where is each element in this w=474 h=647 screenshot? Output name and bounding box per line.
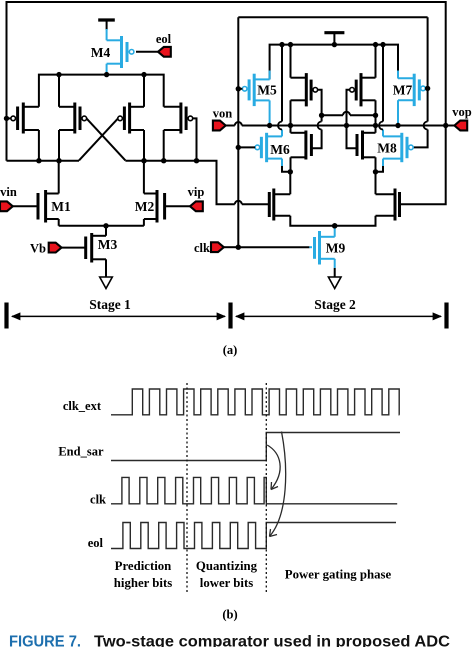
- wire: clk routing right vertical to M7/M8 gates: [427, 17, 429, 121]
- svg-text:M6: M6: [270, 142, 290, 157]
- ground symbol stage 2: [328, 277, 341, 289]
- wire: P5 source up: [290, 45, 292, 78]
- stage separator bar right: [444, 303, 448, 329]
- svg-text:eol: eol: [88, 536, 104, 550]
- wire: N1 source down to internal node: [290, 157, 292, 172]
- wire: M5 drain down to von rail: [269, 100, 271, 125]
- transistor M5 (PMOS power switch): [253, 74, 256, 106]
- wire: cross-couple net A horizontal: [322, 114, 343, 116]
- pin vop pad: [454, 121, 467, 131]
- svg-text:Two-stage comparator used in p: Two-stage comparator used in proposed AD…: [94, 634, 450, 647]
- stage separator bar middle: [228, 303, 232, 329]
- transistor P1 (stage1 outer left PMOS): [22, 103, 25, 134]
- svg-text:eol: eol: [156, 32, 172, 46]
- power VDD stage 2: [324, 31, 344, 34]
- transistor P4 (stage1 outer right PMOS): [179, 103, 182, 134]
- svg-text:vop: vop: [452, 105, 472, 119]
- pin vip pad: [190, 201, 203, 211]
- node: tail junction: [103, 223, 108, 228]
- pin clk pad: [211, 242, 224, 252]
- wire: P5 gate to cross net A: [318, 90, 322, 116]
- node: junction M4 drain on source rail: [104, 72, 109, 77]
- wire: M9 source down to ground: [334, 259, 336, 268]
- svg-text:clk: clk: [194, 241, 210, 255]
- transistor M1 (input NMOS): [44, 190, 47, 223]
- wire: M9 drain up to tail: [334, 226, 336, 237]
- transistor N2 (stage2 latch NMOS right): [361, 131, 364, 160]
- pin eol pad: [158, 47, 171, 57]
- wire: outer loop right lower segment to M12 gate: [400, 126, 446, 205]
- svg-text:FIGURE 7.: FIGURE 7.: [9, 634, 81, 647]
- wire: cross-couple diagonal P3 gate to left rail: [79, 118, 118, 160]
- node: M5 gate tap on clk: [236, 86, 241, 91]
- wire: M7 drain down to vop rail: [397, 100, 399, 125]
- svg-text:M1: M1: [51, 199, 71, 214]
- wire: M10 drain up: [289, 172, 291, 194]
- transistor M8 (PMOS power switch): [400, 133, 403, 162]
- wire: M8 drain down to internal node: [382, 159, 384, 166]
- stage separator bar left: [4, 303, 8, 329]
- wire: P4 gate to right output rail: [193, 118, 197, 160]
- svg-text:(a): (a): [223, 343, 238, 357]
- transistor M10 (stage2 input NMOS left): [272, 189, 275, 221]
- wire: M6 drain down to internal node: [281, 159, 283, 166]
- node: VDD junction on stage2 top rail: [332, 42, 337, 47]
- svg-text:Prediction: Prediction: [115, 559, 172, 573]
- svg-text:clk_ext: clk_ext: [63, 399, 102, 413]
- pin von pad: [213, 121, 226, 131]
- transistor M12 (stage2 input NMOS right): [394, 189, 397, 221]
- wire: P5 drain down through von rail to N1 drain: [290, 100, 292, 133]
- svg-text:Stage 2: Stage 2: [314, 297, 356, 312]
- wire: M2 drain up: [143, 161, 145, 194]
- wire: net A vertical down to N1 gate (hop over von rail): [321, 115, 323, 121]
- wire: M8 source up to top rail (hop over vop rail): [382, 130, 384, 137]
- svg-text:higher bits: higher bits: [114, 576, 172, 590]
- pin Vb pad: [49, 243, 62, 253]
- node: stage1 right output to stage2: [194, 158, 199, 163]
- transistor M9 (NMOS power switch tail): [238, 246, 309, 248]
- transistor M2 (input NMOS): [156, 190, 159, 223]
- svg-text:M8: M8: [377, 141, 397, 156]
- svg-text:clk: clk: [90, 493, 106, 507]
- wire: M12 source down to tail: [335, 216, 376, 226]
- wire: N2 source down to internal node: [375, 157, 377, 172]
- wire: stage1 left output rail: [7, 160, 80, 162]
- ground symbol stage 1: [100, 277, 113, 289]
- wire: P3 drain to right output rail: [143, 130, 145, 161]
- wire: N2 gate up to von rail: [347, 126, 358, 149]
- wire: P1 drain to left output rail: [38, 130, 40, 161]
- svg-text:lower bits: lower bits: [200, 576, 253, 590]
- transistor M6 (PMOS power switch): [265, 133, 268, 162]
- wire: M4 gate to eol pad: [136, 51, 158, 53]
- phase boundary dotted line 1: [186, 383, 188, 592]
- node: M6 gate tap on clk: [236, 145, 241, 150]
- transistor P5 (stage2 latch PMOS left): [305, 73, 308, 106]
- wire: M3 source to ground: [105, 259, 107, 277]
- waveform clk_ext: [111, 389, 400, 415]
- wire: N2 drain up to vop rail: [375, 126, 377, 133]
- svg-text:vin: vin: [0, 185, 17, 199]
- wire: M10 source down to tail: [290, 216, 334, 226]
- wire: P2 drain to left output rail: [58, 130, 60, 161]
- wire: outer loop top/left/right (node net1): [7, 2, 446, 161]
- transistor P2 (stage1 inner left PMOS): [73, 103, 76, 134]
- node: P1 gate tap on left wire: [4, 116, 9, 121]
- arrow: Stage 1 span: [12, 315, 225, 317]
- wire: von-vop output rail: [226, 125, 235, 127]
- node: P3 source junction: [141, 72, 146, 77]
- node: right internal node: [373, 169, 378, 174]
- svg-text:(b): (b): [222, 608, 237, 622]
- phase boundary dotted line 2: [265, 383, 267, 592]
- arrow arc End_sar to clk: [267, 445, 280, 490]
- wire: P6 source up: [375, 45, 377, 78]
- wire: stage2 inner box top (clk routing): [238, 16, 427, 18]
- svg-text:M2: M2: [135, 199, 155, 214]
- wire: stage1 right output rail: [125, 160, 196, 162]
- transistor M4 (PMOS power switch): [106, 29, 108, 40]
- wire: M12 drain up: [375, 172, 377, 194]
- pin vin pad: [0, 201, 13, 211]
- waveform End_sar: [111, 433, 400, 461]
- wire: M2 source down: [143, 219, 145, 226]
- svg-text:M5: M5: [257, 83, 277, 98]
- wire: M1 drain up: [58, 161, 60, 194]
- power VDD stage 1: [98, 18, 115, 21]
- svg-text:M3: M3: [98, 237, 118, 252]
- svg-text:Stage 1: Stage 1: [89, 297, 131, 312]
- svg-text:von: von: [213, 107, 233, 121]
- node: M7 gate tap on clk routing: [425, 86, 430, 91]
- svg-text:M4: M4: [91, 45, 111, 60]
- wire: stage2 top rail: [270, 45, 398, 80]
- wire: clk vertical line: [237, 17, 239, 247]
- wire: M6 source up to top rail (hop over von rail): [281, 130, 283, 137]
- transistor P3 (stage1 inner right PMOS): [128, 103, 131, 134]
- arrow arc End_sar to eol: [270, 432, 286, 537]
- svg-text:End_sar: End_sar: [58, 445, 104, 459]
- node: stage2 tail junction: [332, 223, 337, 228]
- node: clk junction M9: [236, 245, 241, 250]
- wire: P6 drain down to vop rail: [375, 100, 377, 125]
- svg-text:Vb: Vb: [30, 242, 46, 256]
- node: left internal node: [288, 169, 293, 174]
- wire: stage1 tail rail: [59, 225, 144, 227]
- node: junctions on von-vop rail: [267, 123, 272, 128]
- svg-text:M9: M9: [326, 241, 346, 256]
- wire: P6 gate to von rail: [347, 90, 350, 126]
- svg-text:M7: M7: [393, 83, 413, 98]
- transistor M3 (tail current source): [105, 226, 107, 236]
- wire: stage1 right output jog to stage2 M10 gate: [197, 161, 235, 205]
- wire: M1 source down: [58, 219, 60, 226]
- waveform clk: [111, 477, 397, 503]
- arrow: Stage 2 span: [236, 315, 441, 317]
- transistor P6 (stage2 latch PMOS right): [360, 73, 363, 106]
- svg-text:Quantizing: Quantizing: [196, 559, 258, 573]
- node: P2 source junction: [56, 72, 61, 77]
- transistor N1 (stage2 latch NMOS left): [304, 131, 307, 160]
- svg-text:Power gating phase: Power gating phase: [285, 568, 392, 582]
- wire: cross-couple diagonal P2 gate to right rail: [87, 118, 126, 160]
- wire: P4 drain to right output rail: [163, 130, 165, 161]
- svg-text:vip: vip: [188, 185, 205, 199]
- waveform eol: [111, 523, 396, 549]
- wire: stage1 PMOS source rail: [39, 75, 164, 107]
- transistor M7 (PMOS power switch): [413, 74, 416, 106]
